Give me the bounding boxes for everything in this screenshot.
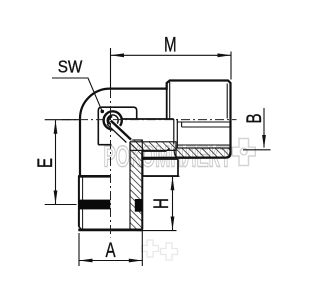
body outline top (thick) xyxy=(80,81,231,176)
O-ring: section square xyxy=(135,199,143,212)
hatched section: sleeve bottom wall xyxy=(176,148,231,158)
cone wedge white xyxy=(108,119,135,145)
E arrows xyxy=(54,120,58,134)
nut plate (rounded square) xyxy=(98,107,136,145)
svg-text:A: A xyxy=(105,237,116,261)
dimension texts xyxy=(32,32,265,262)
svg-text:E: E xyxy=(32,158,56,168)
svg-text:M: M xyxy=(164,32,177,56)
M arrows xyxy=(111,53,125,57)
hatched section: vertical stud right wall xyxy=(130,140,142,230)
E dimension xyxy=(45,119,80,121)
concentric circles (nut dome) xyxy=(104,111,122,129)
O-ring: left outside view band xyxy=(79,200,110,210)
H dimension xyxy=(145,175,180,177)
watermark text xyxy=(104,141,232,174)
svg-text:B: B xyxy=(241,113,265,123)
cone diagonals xyxy=(107,121,131,143)
centerlines (dash-dot) xyxy=(62,89,237,238)
watermark faint crosses bottom xyxy=(142,240,178,260)
cone inner crescent xyxy=(108,117,112,124)
section boundary lines near axis xyxy=(122,119,231,148)
neck step edge lines xyxy=(167,82,228,119)
vertical stud (left half outside view) xyxy=(78,150,142,230)
M dimension xyxy=(110,48,112,89)
B arrow xyxy=(262,135,266,149)
stud bottom edge (thick) xyxy=(78,228,142,231)
svg-text:H: H xyxy=(148,198,172,209)
arrows xyxy=(54,53,266,262)
SW dot xyxy=(101,110,105,114)
SW leader xyxy=(52,78,102,110)
flange (white boss) outline bottom right xyxy=(143,148,179,176)
hatched section: elbow corner strip xyxy=(130,142,176,151)
svg-text:SW: SW xyxy=(58,56,83,76)
A arrows xyxy=(79,259,93,263)
B dimension xyxy=(263,108,265,148)
H arrows xyxy=(171,177,175,191)
A dimension xyxy=(78,233,80,266)
watermark cross logo xyxy=(232,139,255,166)
